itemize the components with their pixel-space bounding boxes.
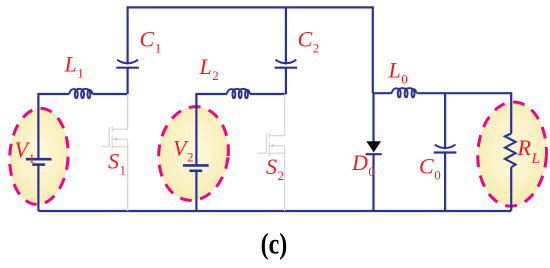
wire C2 bottom lead to node B2 — [285, 68, 287, 94]
inductor L1 — [69, 89, 92, 98]
wire bottom rail — [38, 210, 511, 212]
wire L0 to RL top corner — [417, 93, 512, 133]
svg-text:(c): (c) — [261, 227, 288, 260]
resistor RL — [505, 134, 516, 212]
battery V1 — [26, 159, 52, 164]
switch S1 (MOSFET) — [101, 94, 128, 211]
switch S2 (MOSFET) — [258, 94, 285, 211]
wire L2 to node B2 — [250, 93, 286, 95]
load highlight ellipse around RL — [475, 100, 548, 207]
capacitor C1 — [116, 60, 139, 68]
wire output node to L0 — [373, 92, 392, 94]
wire V2 bottom lead — [195, 171, 197, 211]
diode D0 — [366, 93, 382, 211]
source highlight ellipse around V1 — [7, 107, 71, 206]
wire V1 top lead — [38, 94, 69, 159]
wire C2 top branch — [285, 7, 287, 64]
capacitor C2 — [275, 60, 298, 68]
wire V1 bottom lead — [37, 165, 39, 211]
battery V2 — [183, 165, 209, 170]
inductor L0 — [392, 88, 417, 97]
wire top rail from C1 top to output node — [128, 7, 373, 93]
wire V2 top lead — [196, 94, 227, 165]
wire C1 bottom lead to node B1 — [126, 68, 128, 94]
capacitor C0 — [434, 93, 457, 211]
source highlight ellipse around V2 — [154, 103, 233, 204]
wire L1 to node B1 — [92, 93, 127, 95]
inductor L2 — [227, 89, 250, 98]
